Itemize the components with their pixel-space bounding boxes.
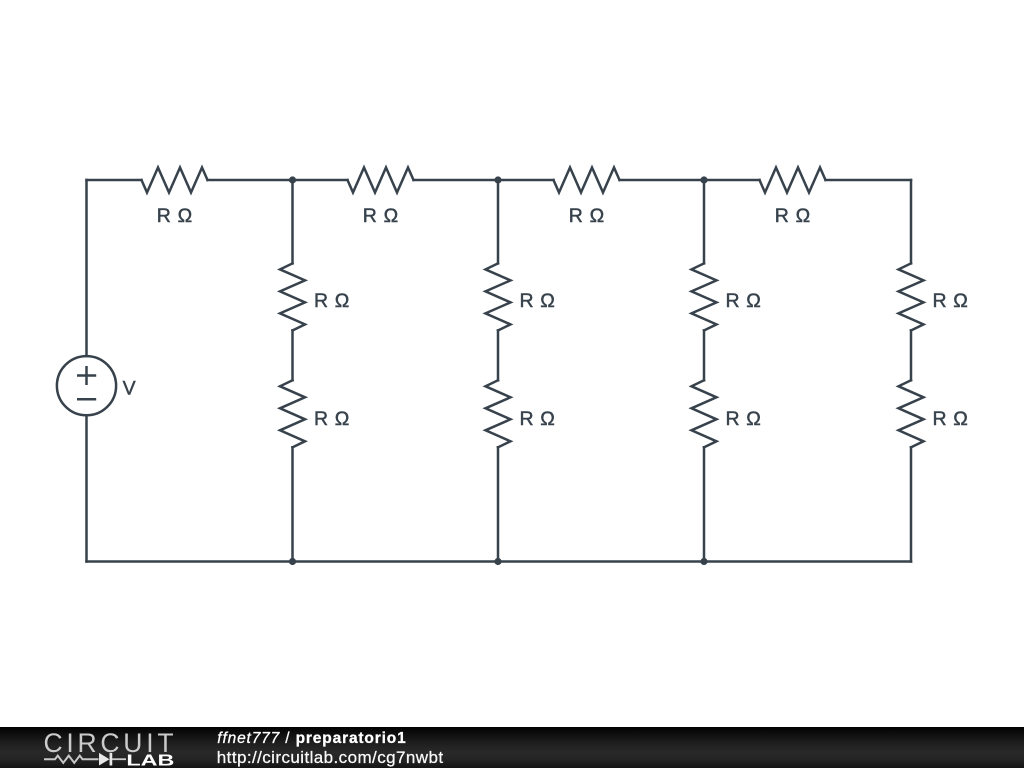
CircuitLab footer bar (0, 727, 1024, 768)
label R9 value R Ω (726, 290, 761, 312)
wire: source top to top-left corner (85, 180, 88, 356)
label V (source name) (123, 378, 136, 400)
voltage source V1 minus sign (77, 398, 96, 401)
label R8 value R Ω (520, 408, 555, 430)
wire: top rail, source corner to R1 (87, 179, 142, 182)
voltage source V1 (circle) (57, 356, 116, 415)
svg-text:LAB: LAB (126, 753, 174, 768)
wire: branch B bottom lead (497, 447, 500, 561)
label R10 value R Ω (726, 408, 761, 430)
svg-text:R Ω: R Ω (157, 205, 192, 227)
svg-text:R Ω: R Ω (726, 408, 761, 430)
resistor R11 (branch D upper, R &#937;) (899, 263, 924, 330)
resistor R5 (branch A upper, R &#937;) (280, 263, 305, 330)
wire: R2 to node B (414, 179, 499, 182)
svg-text:R Ω: R Ω (314, 408, 349, 430)
label R12 value R Ω (933, 408, 968, 430)
svg-text:R Ω: R Ω (933, 290, 968, 312)
label R3 value R Ω (569, 205, 604, 227)
footer url (217, 748, 444, 768)
wire: branch C middle (703, 330, 706, 380)
resistor R10 (branch C lower, R &#937;) (692, 380, 717, 447)
wire: branch B top lead (497, 180, 500, 263)
resistor R2 (top series, R &#937;) (348, 168, 414, 193)
node F (bottom junction dot) (700, 558, 707, 565)
resistor R12 (branch D lower, R &#937;) (899, 380, 924, 447)
svg-text:R Ω: R Ω (520, 290, 555, 312)
resistor R8 (branch B lower, R &#937;) (486, 380, 511, 447)
svg-text:R Ω: R Ω (314, 290, 349, 312)
wire: branch B middle (497, 330, 500, 380)
wire: bottom rail, source to node D (87, 560, 293, 563)
wire: branch A middle (291, 330, 294, 380)
wire: node B to R3 (498, 179, 554, 182)
wire: branch D middle (910, 330, 913, 380)
svg-text:R Ω: R Ω (726, 290, 761, 312)
wire: R4 to top-right corner (826, 179, 912, 182)
resistor R4 (top series, R &#937;) (760, 168, 826, 193)
CircuitLab logo (0, 727, 200, 768)
label R6 value R Ω (314, 408, 349, 430)
label R7 value R Ω (520, 290, 555, 312)
resistor R9 (branch C upper, R &#937;) (692, 263, 717, 330)
node B (junction dot) (494, 176, 501, 183)
wire: R1 to node A (208, 179, 293, 182)
svg-text:R Ω: R Ω (569, 205, 604, 227)
logo resistor-diode glyph (44, 756, 99, 763)
svg-text:V: V (123, 378, 136, 400)
wire: branch D top lead (910, 180, 913, 263)
label R1 value R Ω (157, 205, 192, 227)
wire: bottom rail, node E to node F (498, 560, 704, 563)
node A (junction dot) (289, 176, 296, 183)
wire: node A to R2 (293, 179, 348, 182)
resistor R3 (top series, R &#937;) (554, 168, 620, 193)
wire: bottom rail, node D to node E (293, 560, 499, 563)
node C (junction dot) (700, 176, 707, 183)
wire: source bottom lead (85, 415, 88, 561)
svg-text:R Ω: R Ω (520, 408, 555, 430)
voltage source V1 plus sign (77, 366, 96, 385)
wire: node C to R4 (704, 179, 760, 182)
label R11 value R Ω (933, 290, 968, 312)
resistor R7 (branch B upper, R &#937;) (486, 263, 511, 330)
footer title: ffnet777 / preparatorio1 (217, 730, 406, 748)
label R4 value R Ω (775, 205, 810, 227)
label R2 value R Ω (363, 205, 398, 227)
wire: branch D bottom lead (910, 447, 913, 561)
resistor R1 (top series, R &#937;) (142, 168, 208, 193)
node E (bottom junction dot) (494, 558, 501, 565)
wire: branch C bottom lead (703, 447, 706, 561)
wire: branch C top lead (703, 180, 706, 263)
wire: branch A bottom lead (291, 447, 294, 561)
svg-text:R Ω: R Ω (933, 408, 968, 430)
node D (bottom junction dot) (289, 558, 296, 565)
wire: branch A top lead (291, 180, 294, 263)
wire: R3 to node C (620, 179, 705, 182)
wire: bottom rail, node F to right corner (704, 560, 911, 563)
label R5 value R Ω (314, 290, 349, 312)
resistor R6 (branch A lower, R &#937;) (280, 380, 305, 447)
svg-text:R Ω: R Ω (775, 205, 810, 227)
svg-text:R Ω: R Ω (363, 205, 398, 227)
